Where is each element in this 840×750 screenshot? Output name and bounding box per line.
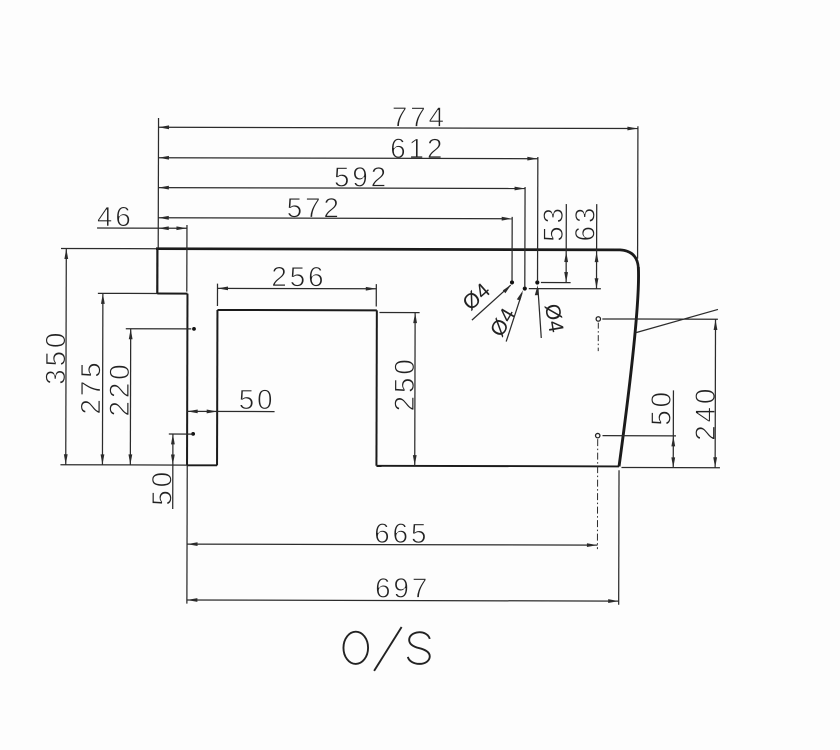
hole Ø4 #1: [510, 280, 514, 284]
svg-text:53: 53: [538, 205, 569, 242]
dimension 50 lower-left: [146, 434, 192, 509]
dimension 50 right side: [602, 389, 676, 468]
notch right edge: [375, 310, 377, 465]
dimension 53: [538, 204, 571, 283]
leader Ø4 hole 1: [458, 279, 511, 321]
dimension 612: [158, 132, 538, 281]
dimension 275: [75, 293, 157, 465]
svg-text:275: 275: [75, 359, 106, 414]
O/S label S: [408, 632, 430, 664]
svg-text:Ø4: Ø4: [458, 279, 495, 315]
svg-text:697: 697: [375, 572, 430, 603]
svg-text:63: 63: [569, 205, 600, 242]
centerline below right lower hole: [596, 439, 598, 549]
O/S label O: [343, 632, 368, 664]
dimension 572: [158, 192, 512, 281]
leader Ø4 hole 3: [535, 285, 568, 338]
svg-text:612: 612: [390, 133, 445, 164]
svg-text:240: 240: [690, 386, 721, 441]
svg-text:Ø4: Ø4: [540, 302, 568, 335]
notch top edge: [217, 309, 376, 311]
centerline below right upper hole: [597, 323, 599, 351]
right hole lower: [596, 433, 600, 437]
dimension 665: [187, 465, 598, 605]
part bottom edge: [376, 465, 619, 468]
left leg hole lower: [191, 432, 195, 436]
dimension 63: [529, 204, 601, 289]
hole Ø4 #2: [523, 286, 527, 290]
left leg bottom edge: [187, 464, 217, 466]
part right curved edge: [619, 267, 639, 466]
leader Ø4 hole 2: [486, 290, 523, 341]
svg-text:50: 50: [646, 389, 677, 426]
dimension 592: [158, 161, 525, 287]
part top edge: [156, 249, 638, 269]
O/S label slash: [374, 627, 402, 671]
part left edge: [156, 248, 158, 294]
dimension 220: [104, 329, 192, 465]
left leg outer edge: [186, 294, 188, 466]
dimension 697: [187, 469, 619, 605]
notch left edge: [216, 310, 218, 465]
dimension 46: [97, 201, 187, 291]
svg-text:50: 50: [239, 384, 276, 415]
leader diagonal right side: [636, 309, 718, 333]
dimension 240: [602, 319, 721, 468]
dimension 50 leg width: [187, 384, 275, 415]
svg-text:256: 256: [271, 261, 326, 292]
dimension 250: [379, 312, 420, 465]
dimension 350: [40, 248, 188, 465]
right hole upper: [596, 317, 600, 321]
hole Ø4 #3: [535, 280, 539, 284]
dimension 774: [158, 101, 638, 259]
step bottom edge: [157, 292, 187, 294]
svg-text:Ø4: Ø4: [486, 304, 520, 341]
left leg hole upper: [192, 327, 196, 331]
dimension 256: [217, 261, 376, 306]
